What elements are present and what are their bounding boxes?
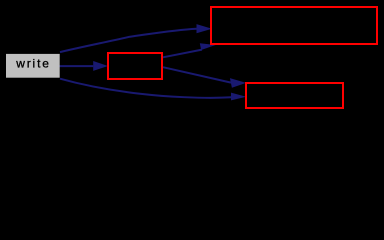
edge write->top-right box (curve) <box>60 24 212 52</box>
edge write->middle box (horizontal arrow) <box>59 61 108 71</box>
edge middle box->bottom-right box <box>163 67 246 88</box>
node middle (red-bordered, truncated callee) <box>108 53 162 79</box>
node write (gray, current function) <box>6 54 60 78</box>
svg-text:write: write <box>15 57 51 71</box>
node top-right (red-bordered, truncated callee) <box>211 7 377 44</box>
node bottom-right (red-bordered, truncated callee) <box>246 83 343 108</box>
edge write->bottom-right box (long bottom curve) <box>60 79 246 101</box>
edge middle box->top-right box <box>163 43 216 57</box>
